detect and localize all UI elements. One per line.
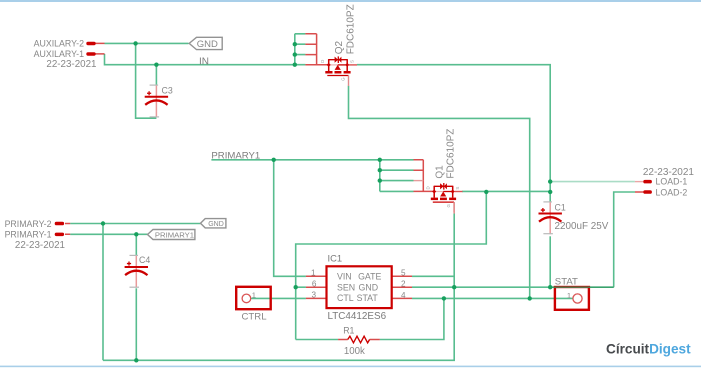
svg-text:AUXILARY-1: AUXILARY-1 [34,49,84,59]
svg-text:GATE: GATE [358,271,381,281]
svg-text:6: 6 [312,280,317,289]
svg-text:LOAD-2: LOAD-2 [656,188,688,198]
svg-text:LOAD-1: LOAD-1 [656,177,688,187]
svg-text:5: 5 [401,269,406,278]
svg-text:FDC610PZ: FDC610PZ [346,4,357,54]
svg-text:PRIMARY1: PRIMARY1 [211,151,260,162]
svg-text:Q2: Q2 [334,41,345,55]
svg-text:22-23-2021: 22-23-2021 [15,240,65,251]
svg-text:PRIMARY-1: PRIMARY-1 [5,230,52,240]
svg-text:VIN: VIN [337,271,352,281]
svg-text:4: 4 [401,291,406,300]
svg-text:GND: GND [197,39,218,50]
svg-text:CírcuitDigest: CírcuitDigest [606,342,691,357]
svg-text:3: 3 [311,291,316,300]
svg-text:IN: IN [199,56,209,67]
svg-text:C4: C4 [139,255,150,265]
svg-text:PRIMARY1: PRIMARY1 [155,230,194,239]
svg-text:SEN: SEN [337,282,355,292]
svg-text:GND: GND [208,221,224,228]
svg-text:Q1: Q1 [435,165,446,179]
svg-text:1: 1 [311,269,316,278]
svg-text:PRIMARY-2: PRIMARY-2 [5,219,52,229]
svg-text:1: 1 [252,290,256,299]
svg-text:R1: R1 [343,326,354,336]
svg-text:STAT: STAT [357,293,379,303]
svg-text:1: 1 [567,291,571,300]
svg-text:C1: C1 [555,202,566,212]
svg-text:22-23-2021: 22-23-2021 [46,59,96,70]
svg-text:CTL: CTL [337,293,354,303]
svg-text:CTRL: CTRL [242,311,268,322]
svg-text:C3: C3 [162,85,173,95]
svg-text:2200uF 25V: 2200uF 25V [555,221,609,232]
svg-text:100k: 100k [344,346,365,357]
svg-text:2: 2 [401,280,406,289]
svg-text:STAT: STAT [555,276,578,287]
svg-text:GND: GND [359,282,379,292]
svg-text:LTC4412ES6: LTC4412ES6 [328,311,387,322]
svg-text:AUXILARY-2: AUXILARY-2 [34,39,84,49]
svg-text:FDC610PZ: FDC610PZ [445,129,456,179]
svg-text:IC1: IC1 [328,252,343,263]
